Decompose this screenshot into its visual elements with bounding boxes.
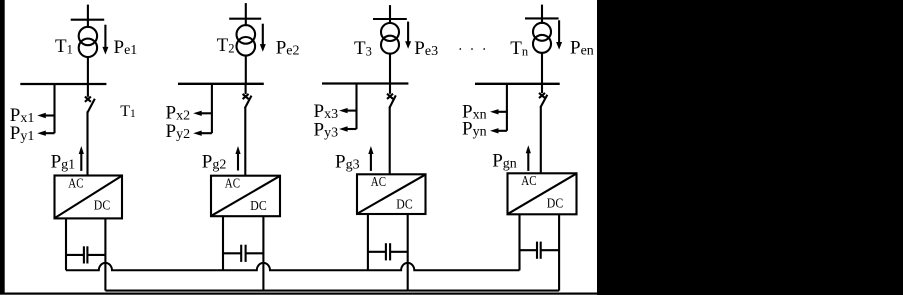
svg-text:AC: AC (371, 174, 386, 189)
arrow Pe2 (260, 24, 266, 52)
wire converter left output (518, 214, 520, 270)
svg-text:DC: DC (396, 196, 412, 211)
converter U2 AC/DC (211, 176, 280, 217)
arrow Pg2 (235, 146, 240, 171)
transformer T2 (237, 25, 256, 55)
svg-text:DC: DC (250, 198, 266, 213)
wire transformer to bus (541, 52, 543, 84)
wire converter right output (104, 218, 106, 290)
bus bar branch 2 (178, 83, 264, 85)
capacitor C1 (66, 246, 105, 263)
svg-text:AC: AC (68, 175, 83, 190)
bus bar branch n (475, 83, 560, 85)
svg-text:DC: DC (94, 198, 110, 213)
transformer T1 (79, 27, 97, 57)
wire measurement tap (506, 84, 508, 131)
wire converter left output (222, 216, 224, 270)
breaker switch branch 2 (243, 84, 252, 176)
breaker switch branch 1 (85, 84, 95, 176)
wire measurement tap (53, 84, 55, 133)
ellipsis dots (459, 48, 485, 50)
wire measurement tap (211, 84, 213, 133)
grid connection stub branch 1 (71, 5, 105, 28)
wire converter right output (558, 214, 560, 290)
converter U1 AC/DC (55, 176, 123, 219)
arrow Pen (556, 20, 562, 49)
arrow Py3 (339, 126, 356, 131)
arrow Pgn (526, 145, 531, 171)
bus bar branch 3 (322, 82, 408, 84)
converter Un AC/DC (508, 173, 577, 214)
capacitor C3 (368, 243, 408, 260)
wire converter right output (407, 214, 409, 291)
arrow Pg3 (368, 146, 373, 171)
wire converter left output (65, 218, 67, 270)
wire converter left output (367, 214, 369, 270)
breaker switch branch 3 (387, 84, 396, 175)
wire measurement tap (355, 84, 357, 130)
arrow Py1 (37, 131, 54, 136)
transformer T3 (381, 23, 399, 54)
DC bus A (with crossover hops) (66, 263, 520, 270)
wire transformer to bus (87, 56, 89, 84)
capacitor C2 (223, 245, 263, 262)
arrow Py2 (193, 131, 212, 136)
arrow Px1 (37, 113, 54, 118)
converter U3 AC/DC (357, 174, 426, 214)
arrow Pg1 (79, 146, 84, 171)
arrow Pxn (490, 109, 507, 114)
grid connection stub branch 2 (229, 3, 261, 26)
wire transformer to bus (389, 53, 391, 84)
svg-text:DC: DC (547, 195, 563, 210)
DC bus B (105, 290, 559, 292)
arrow Pe1 (102, 25, 108, 55)
arrow Px2 (193, 111, 212, 116)
arrow Pyn (490, 128, 507, 133)
arrow Px3 (339, 108, 356, 113)
wire transformer to bus (245, 55, 247, 84)
arrow Pe3 (405, 22, 411, 49)
breaker switch branch n (539, 84, 547, 174)
svg-text:AC: AC (521, 173, 536, 188)
transformer Tn (533, 23, 551, 53)
wire converter right output (262, 216, 264, 290)
svg-text:AC: AC (225, 176, 240, 191)
grid connection stub branch n (525, 5, 559, 24)
capacitor Cn (520, 242, 560, 259)
grid connection stub branch 3 (373, 5, 407, 24)
bus bar branch 1 (20, 83, 106, 85)
